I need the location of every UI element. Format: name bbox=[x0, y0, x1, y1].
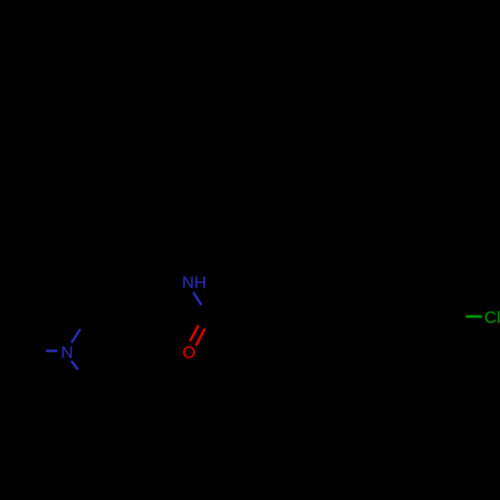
bond N-C upper right (nitrogen half) bbox=[72, 329, 81, 343]
bond N-CH3 left (nitrogen half) bbox=[46, 350, 58, 352]
bond C=O outer line (oxygen half) bbox=[190, 325, 198, 341]
svg-text:N: N bbox=[61, 343, 73, 362]
bond C-Cl (chlorine half) bbox=[466, 315, 482, 318]
bond C=O inner line (oxygen half) bbox=[196, 329, 205, 346]
bond N-C lower right (nitrogen half) bbox=[71, 361, 78, 370]
svg-text:Cl: Cl bbox=[484, 308, 500, 327]
bond NH-C carbonyl (nitrogen half) bbox=[193, 292, 201, 305]
svg-text:O: O bbox=[182, 343, 195, 362]
svg-text:NH: NH bbox=[182, 273, 207, 292]
